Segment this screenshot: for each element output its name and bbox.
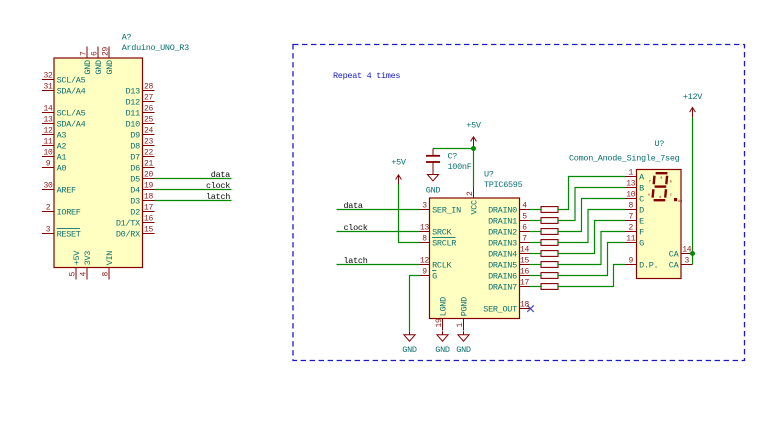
A? pin 2 IOREF bbox=[42, 204, 81, 218]
A? pin 15 D0/RX bbox=[116, 226, 155, 240]
svg-text:2: 2 bbox=[46, 204, 51, 213]
U? pin 9 G bbox=[420, 268, 438, 282]
svg-text:100nF: 100nF bbox=[448, 162, 472, 172]
svg-text:8: 8 bbox=[628, 202, 633, 211]
U? pin 14 DRAIN4 bbox=[488, 246, 529, 260]
resistor R1 bbox=[541, 207, 558, 213]
svg-text:9: 9 bbox=[46, 160, 51, 169]
svg-text:c: c bbox=[670, 193, 672, 197]
svg-text:SCL/A5: SCL/A5 bbox=[57, 108, 86, 118]
svg-text:20: 20 bbox=[144, 171, 154, 180]
label Repeat 4 times bbox=[333, 71, 400, 81]
U?7seg pin 2 F bbox=[625, 224, 644, 238]
A? pin 23 D8 bbox=[130, 138, 154, 152]
wire R4 to 7seg pin bbox=[558, 210, 625, 243]
svg-text:C?: C? bbox=[448, 151, 458, 161]
wire VCC bbox=[473, 149, 475, 188]
svg-text:DRAIN2: DRAIN2 bbox=[488, 227, 517, 237]
svg-text:DRAIN1: DRAIN1 bbox=[488, 216, 517, 226]
A? pin 12 A3 bbox=[42, 127, 66, 141]
U? pin 7 DRAIN3 bbox=[488, 235, 529, 249]
A? pin 26 D11 bbox=[125, 105, 154, 119]
svg-text:19: 19 bbox=[144, 182, 154, 191]
label data bbox=[211, 170, 230, 180]
A? pin 5 +5V bbox=[68, 250, 81, 280]
wire DRAIN0 to R1 bbox=[530, 209, 542, 211]
U? pin 2 VCC bbox=[466, 187, 479, 215]
svg-text:a: a bbox=[660, 176, 662, 180]
A? pin 27 D12 bbox=[125, 94, 154, 108]
svg-text:VIN: VIN bbox=[105, 251, 115, 266]
svg-text:d: d bbox=[659, 195, 661, 200]
svg-text:7: 7 bbox=[522, 235, 527, 244]
wire R2 to 7seg pin bbox=[558, 188, 625, 221]
U?7seg pin 11 G bbox=[625, 235, 644, 249]
svg-text:U?: U? bbox=[484, 170, 494, 180]
svg-text:4: 4 bbox=[522, 202, 527, 211]
svg-text:D: D bbox=[639, 205, 644, 215]
svg-text:D12: D12 bbox=[125, 97, 140, 107]
svg-text:A2: A2 bbox=[57, 141, 67, 151]
svg-text:LGND: LGND bbox=[438, 297, 448, 316]
svg-text:RESET: RESET bbox=[57, 229, 81, 239]
A? pin 10 A1 bbox=[42, 149, 66, 163]
U? pin 16 DRAIN6 bbox=[488, 268, 529, 282]
U? pin 18 SER_OUT bbox=[483, 301, 529, 315]
svg-text:D11: D11 bbox=[125, 108, 140, 118]
svg-text:17: 17 bbox=[520, 279, 530, 288]
label latch bbox=[344, 256, 368, 266]
svg-text:+12V: +12V bbox=[683, 92, 703, 102]
A? pin 22 D7 bbox=[130, 149, 154, 163]
svg-text:D2: D2 bbox=[130, 207, 140, 217]
svg-text:14: 14 bbox=[520, 246, 530, 255]
U? pin 12 RCLK bbox=[420, 257, 453, 271]
no-connect X on SER_OUT bbox=[527, 305, 534, 312]
A? pin 9 A0 bbox=[42, 160, 66, 174]
svg-text:11: 11 bbox=[626, 235, 636, 244]
svg-text:6: 6 bbox=[522, 224, 527, 233]
shift register U? TPIC6595 bbox=[430, 170, 523, 319]
svg-text:latch: latch bbox=[206, 192, 230, 202]
svg-text:SCL/A5: SCL/A5 bbox=[57, 75, 86, 85]
ground GND (PGND) bbox=[456, 331, 471, 355]
svg-text:DRAIN4: DRAIN4 bbox=[488, 249, 517, 259]
svg-text:19: 19 bbox=[435, 318, 444, 328]
U? pin 17 DRAIN7 bbox=[488, 279, 529, 293]
svg-text:Comon_Anode_Single_7seg: Comon_Anode_Single_7seg bbox=[569, 154, 680, 164]
svg-text:10: 10 bbox=[43, 149, 53, 158]
power +12V bbox=[683, 92, 703, 118]
A? pin 16 D1/TX bbox=[116, 215, 155, 229]
power +5V (left) bbox=[391, 158, 407, 185]
svg-text:TPIC6595: TPIC6595 bbox=[484, 180, 523, 190]
svg-text:+5V: +5V bbox=[72, 250, 82, 266]
wire data from D5 bbox=[155, 178, 232, 180]
svg-text:24: 24 bbox=[144, 127, 154, 136]
svg-text:+5V: +5V bbox=[391, 158, 407, 168]
svg-text:C: C bbox=[639, 194, 644, 204]
svg-text:Repeat 4 times: Repeat 4 times bbox=[333, 71, 400, 81]
ground GND (LGND) bbox=[435, 331, 450, 355]
svg-text:18: 18 bbox=[144, 193, 154, 202]
display U? Comon_Anode_Single_7seg bbox=[569, 139, 681, 279]
wire clock to SRCK bbox=[337, 231, 420, 233]
svg-text:D1/TX: D1/TX bbox=[116, 218, 140, 228]
svg-text:VCC: VCC bbox=[469, 200, 479, 215]
svg-text:13: 13 bbox=[420, 224, 430, 233]
svg-text:17: 17 bbox=[144, 204, 154, 213]
U? pin 6 DRAIN2 bbox=[488, 224, 529, 238]
U? pin 1 PGND bbox=[456, 297, 469, 331]
A? pin 20 D5 bbox=[130, 171, 154, 185]
U?7seg pin 3 CA bbox=[669, 257, 693, 271]
wire DRAIN1 to R2 bbox=[530, 220, 542, 222]
svg-text:9: 9 bbox=[422, 268, 427, 277]
svg-text:SDA/A4: SDA/A4 bbox=[57, 86, 86, 96]
capacitor C? 100nF bbox=[426, 149, 472, 174]
wire DRAIN3 to R4 bbox=[530, 242, 542, 244]
svg-text:data: data bbox=[211, 170, 230, 180]
svg-text:3V3: 3V3 bbox=[83, 251, 93, 266]
A? pin 14 SCL/A5 bbox=[42, 105, 86, 119]
resistor R2 bbox=[541, 218, 558, 224]
svg-text:5: 5 bbox=[522, 213, 527, 222]
resistor R4 bbox=[541, 240, 558, 246]
A? pin 18 D3 bbox=[130, 193, 154, 207]
junction at CA bbox=[690, 251, 695, 256]
A? pin 8 VIN bbox=[101, 251, 114, 280]
svg-text:G: G bbox=[432, 271, 437, 281]
U?7seg pin 8 D bbox=[625, 202, 644, 216]
wire CA to CA bbox=[692, 254, 694, 265]
wire +5V to SRCLR bbox=[399, 184, 420, 243]
wire R7 to 7seg pin bbox=[558, 243, 625, 276]
svg-text:F: F bbox=[639, 227, 644, 237]
A? pin 19 D4 bbox=[130, 182, 154, 196]
svg-text:DRAIN7: DRAIN7 bbox=[488, 282, 517, 292]
svg-text:6: 6 bbox=[90, 51, 99, 56]
U? pin 19 LGND bbox=[435, 297, 448, 331]
svg-text:e: e bbox=[648, 193, 650, 197]
A? pin 17 D2 bbox=[130, 204, 154, 218]
svg-text:28: 28 bbox=[144, 83, 154, 92]
U?7seg pin 1 A bbox=[625, 169, 645, 183]
svg-text:21: 21 bbox=[144, 160, 154, 169]
resistor R6 bbox=[541, 262, 558, 268]
A? pin 7 GND bbox=[79, 47, 92, 75]
svg-text:3: 3 bbox=[46, 226, 51, 235]
svg-text:4: 4 bbox=[79, 272, 88, 277]
ground GND (at C?) bbox=[426, 171, 441, 196]
svg-text:IOREF: IOREF bbox=[57, 207, 81, 217]
wire R5 to 7seg pin bbox=[558, 221, 625, 254]
label latch bbox=[206, 192, 230, 202]
svg-text:29: 29 bbox=[101, 46, 110, 56]
A? pin 24 D9 bbox=[130, 127, 154, 141]
svg-text:8: 8 bbox=[101, 272, 110, 277]
svg-text:30: 30 bbox=[43, 182, 53, 191]
svg-text:b: b bbox=[670, 179, 672, 184]
label clock bbox=[206, 181, 230, 191]
svg-text:3: 3 bbox=[684, 257, 689, 266]
A? pin 31 SDA/A4 bbox=[42, 83, 86, 97]
U?7seg pin 7 E bbox=[625, 213, 644, 227]
wire DRAIN7 to R8 bbox=[530, 286, 542, 288]
svg-text:27: 27 bbox=[144, 94, 154, 103]
wire DRAIN2 to R3 bbox=[530, 231, 542, 233]
U? pin 3 SER_IN bbox=[420, 202, 462, 216]
svg-text:DRAIN6: DRAIN6 bbox=[488, 271, 517, 281]
A? pin 29 GND bbox=[101, 46, 114, 74]
svg-text:clock: clock bbox=[344, 223, 368, 233]
wire to capacitor bbox=[433, 148, 474, 150]
svg-text:15: 15 bbox=[144, 226, 154, 235]
svg-text:D4: D4 bbox=[130, 185, 140, 195]
wire R6 to 7seg pin bbox=[558, 232, 625, 265]
svg-text:D13: D13 bbox=[125, 86, 140, 96]
svg-text:18: 18 bbox=[520, 301, 530, 310]
A? pin 28 D13 bbox=[125, 83, 154, 97]
svg-text:D3: D3 bbox=[130, 196, 140, 206]
svg-text:GND: GND bbox=[456, 345, 471, 355]
svg-text:DRAIN5: DRAIN5 bbox=[488, 260, 517, 270]
A? pin 3 RESET bbox=[42, 226, 81, 240]
svg-text:D8: D8 bbox=[130, 141, 140, 151]
A? pin 4 3V3 bbox=[79, 251, 92, 280]
svg-text:CA: CA bbox=[669, 260, 680, 270]
svg-text:D0/RX: D0/RX bbox=[116, 229, 140, 239]
svg-text:7: 7 bbox=[79, 51, 88, 56]
svg-text:DRAIN0: DRAIN0 bbox=[488, 205, 517, 215]
A? pin 11 A2 bbox=[42, 138, 66, 152]
U? pin 5 DRAIN1 bbox=[488, 213, 529, 227]
U? pin 4 DRAIN0 bbox=[488, 202, 529, 216]
U?7seg pin 14 CA bbox=[669, 246, 693, 260]
svg-text:GND: GND bbox=[426, 186, 441, 196]
svg-text:PGND: PGND bbox=[459, 297, 469, 316]
resistor R7 bbox=[541, 273, 558, 279]
svg-text:SER_IN: SER_IN bbox=[432, 205, 461, 215]
svg-text:15: 15 bbox=[520, 257, 530, 266]
A? pin 21 D6 bbox=[130, 160, 154, 174]
power +5V (at C?) bbox=[466, 121, 482, 149]
U? pin 13 SRCK bbox=[420, 224, 453, 238]
svg-text:RCLK: RCLK bbox=[432, 260, 452, 270]
svg-text:32: 32 bbox=[43, 72, 53, 81]
svg-text:D10: D10 bbox=[125, 119, 140, 129]
wire R8 to 7seg pin bbox=[558, 265, 625, 287]
A? pin 25 D10 bbox=[125, 116, 154, 130]
svg-text:14: 14 bbox=[43, 105, 53, 114]
wire R1 to 7seg pin bbox=[558, 177, 625, 210]
svg-text:GND: GND bbox=[94, 60, 104, 75]
svg-text:A0: A0 bbox=[57, 163, 67, 173]
svg-text:25: 25 bbox=[144, 116, 154, 125]
svg-text:U?: U? bbox=[655, 139, 665, 149]
A? pin 30 AREF bbox=[42, 182, 76, 196]
svg-text:13: 13 bbox=[626, 180, 636, 189]
svg-text:A1: A1 bbox=[57, 152, 67, 162]
svg-text:22: 22 bbox=[144, 149, 154, 158]
svg-text:GND: GND bbox=[435, 345, 450, 355]
wire DRAIN4 to R5 bbox=[530, 253, 542, 255]
svg-text:16: 16 bbox=[520, 268, 530, 277]
wire DRAIN5 to R6 bbox=[530, 264, 542, 266]
svg-text:D5: D5 bbox=[130, 174, 140, 184]
svg-text:E: E bbox=[639, 216, 644, 226]
U?7seg pin 10 C bbox=[625, 191, 644, 205]
svg-text:9: 9 bbox=[628, 257, 633, 266]
svg-text:DRAIN3: DRAIN3 bbox=[488, 238, 517, 248]
svg-text:G: G bbox=[639, 238, 644, 248]
wire latch to RCLK bbox=[337, 264, 420, 266]
svg-text:5: 5 bbox=[68, 272, 77, 277]
wire DRAIN6 to R7 bbox=[530, 275, 542, 277]
svg-text:D9: D9 bbox=[130, 130, 140, 140]
7-segment digit graphic bbox=[648, 173, 682, 204]
A? pin 6 GND bbox=[90, 47, 103, 75]
svg-text:GND: GND bbox=[402, 345, 417, 355]
svg-text:8: 8 bbox=[422, 235, 427, 244]
svg-text:2: 2 bbox=[466, 191, 475, 196]
A? pin 13 SDA/A4 bbox=[42, 116, 86, 130]
svg-text:A?: A? bbox=[122, 33, 132, 43]
label clock bbox=[344, 223, 368, 233]
svg-text:f: f bbox=[649, 179, 651, 184]
svg-text:23: 23 bbox=[144, 138, 154, 147]
wire data to SER_IN bbox=[337, 209, 420, 211]
svg-text:13: 13 bbox=[43, 116, 53, 125]
U?7seg pin 13 B bbox=[625, 180, 644, 194]
wire R3 to 7seg pin bbox=[558, 199, 625, 232]
svg-text:1: 1 bbox=[628, 169, 633, 178]
svg-text:dp: dp bbox=[678, 199, 682, 204]
svg-text:GND: GND bbox=[83, 60, 93, 75]
U?7seg pin 9 D.P. bbox=[625, 257, 658, 271]
svg-text:2: 2 bbox=[628, 224, 633, 233]
svg-text:11: 11 bbox=[43, 138, 53, 147]
A? pin 32 SCL/A5 bbox=[42, 72, 86, 86]
svg-text:clock: clock bbox=[206, 181, 230, 191]
wire +12V to CA bbox=[692, 118, 694, 254]
U? pin 8 SRCLR bbox=[420, 235, 457, 249]
svg-text:12: 12 bbox=[420, 257, 430, 266]
svg-text:7: 7 bbox=[628, 213, 633, 222]
wire clock from D4 bbox=[155, 189, 232, 191]
svg-text:latch: latch bbox=[344, 256, 368, 266]
wire G to GND bbox=[410, 276, 420, 332]
svg-text:10: 10 bbox=[626, 191, 636, 200]
svg-text:1: 1 bbox=[456, 323, 465, 328]
U? pin 15 DRAIN5 bbox=[488, 257, 529, 271]
wire latch from D3 bbox=[155, 200, 232, 202]
svg-text:Arduino_UNO_R3: Arduino_UNO_R3 bbox=[122, 43, 189, 53]
svg-text:GND: GND bbox=[105, 60, 115, 75]
junction at VCC bbox=[471, 146, 476, 151]
arduino module A? Arduino_UNO_R3 bbox=[54, 33, 189, 268]
dashed repeat box bbox=[293, 45, 745, 361]
svg-text:SER_OUT: SER_OUT bbox=[483, 304, 517, 314]
svg-text:AREF: AREF bbox=[57, 185, 76, 195]
svg-text:CA: CA bbox=[669, 249, 680, 259]
svg-text:+5V: +5V bbox=[466, 121, 482, 131]
svg-text:31: 31 bbox=[43, 83, 53, 92]
svg-text:16: 16 bbox=[144, 215, 154, 224]
label data bbox=[344, 201, 363, 211]
svg-text:A3: A3 bbox=[57, 130, 67, 140]
svg-text:data: data bbox=[344, 201, 363, 211]
resistor R3 bbox=[541, 229, 558, 235]
svg-text:12: 12 bbox=[43, 127, 53, 136]
ground GND (G pin) bbox=[402, 331, 417, 355]
svg-text:D7: D7 bbox=[130, 152, 140, 162]
svg-text:SRCK: SRCK bbox=[432, 227, 452, 237]
svg-text:26: 26 bbox=[144, 105, 154, 114]
svg-text:B: B bbox=[639, 183, 644, 193]
resistor R8 bbox=[541, 284, 558, 290]
svg-text:SRCLR: SRCLR bbox=[432, 238, 456, 248]
resistor R5 bbox=[541, 251, 558, 257]
svg-text:3: 3 bbox=[422, 202, 427, 211]
svg-text:D.P.: D.P. bbox=[639, 260, 658, 270]
svg-text:SDA/A4: SDA/A4 bbox=[57, 119, 86, 129]
svg-text:D6: D6 bbox=[130, 163, 140, 173]
